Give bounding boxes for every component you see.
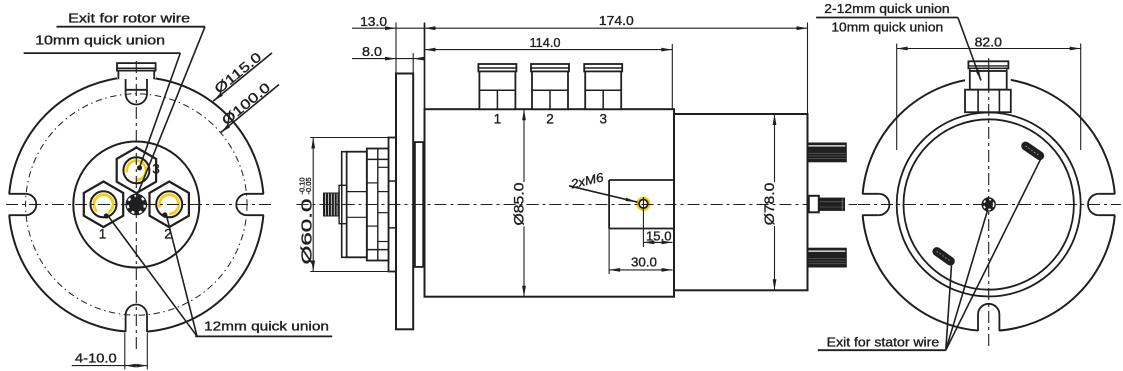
svg-text:1: 1 bbox=[494, 112, 502, 127]
svg-text:Exit for rotor wire: Exit for rotor wire bbox=[68, 12, 190, 26]
svg-text:3: 3 bbox=[599, 112, 607, 127]
svg-text:10mm quick union: 10mm quick union bbox=[831, 21, 943, 35]
svg-text:15.0: 15.0 bbox=[646, 229, 672, 243]
svg-text:3: 3 bbox=[152, 162, 160, 177]
svg-text:Exit for stator wire: Exit for stator wire bbox=[827, 336, 940, 350]
svg-text:12mm quick union: 12mm quick union bbox=[204, 320, 329, 334]
svg-text:Ø78.0: Ø78.0 bbox=[761, 183, 777, 226]
svg-text:8.0: 8.0 bbox=[362, 45, 382, 59]
svg-text:30.0: 30.0 bbox=[631, 255, 657, 269]
svg-text:114.0: 114.0 bbox=[530, 36, 561, 50]
svg-text:13.0: 13.0 bbox=[360, 15, 387, 29]
svg-text:-0.10: -0.10 bbox=[297, 177, 306, 194]
svg-text:1: 1 bbox=[99, 227, 107, 242]
svg-text:Ø85.0: Ø85.0 bbox=[511, 182, 527, 225]
svg-text:2: 2 bbox=[546, 112, 554, 127]
svg-text:174.0: 174.0 bbox=[599, 14, 634, 28]
svg-text:2: 2 bbox=[164, 227, 172, 242]
svg-text:10mm quick union: 10mm quick union bbox=[35, 34, 165, 48]
svg-text:2-12mm quick union: 2-12mm quick union bbox=[824, 2, 949, 16]
svg-text:4-10.0: 4-10.0 bbox=[75, 351, 117, 365]
svg-text:82.0: 82.0 bbox=[975, 36, 1002, 50]
svg-text:Ø60.0: Ø60.0 bbox=[299, 199, 316, 265]
